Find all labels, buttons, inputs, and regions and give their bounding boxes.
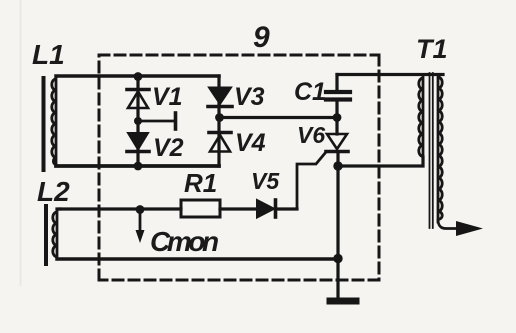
junction node: bridge top left [134, 72, 143, 81]
Cmon (Стоп) arrow [136, 211, 145, 243]
wire: branch to T1 primary bottom [338, 157, 423, 166]
svg-text:V4: V4 [235, 129, 266, 157]
stub terminal between V1 and V2 [138, 113, 176, 129]
wire: right bridge branch [217, 76, 220, 166]
dashed enclosure box Э [99, 55, 379, 280]
diode V2 [127, 133, 149, 152]
svg-text:V5: V5 [251, 168, 280, 194]
diode V1 [127, 90, 149, 109]
wire: top rail from C1 to T1 [337, 73, 443, 76]
svg-text:T1: T1 [416, 34, 448, 64]
svg-text:9: 9 [253, 21, 270, 54]
wire: V6 cathode down to ground node [336, 153, 339, 298]
junction node: Cmon tap [136, 205, 145, 214]
faint page crease [20, 0, 22, 285]
svg-text:L2: L2 [37, 176, 70, 207]
junction node: C1/V6 branch top [333, 113, 342, 122]
wire: L1 bottom / bridge bottom rail [56, 164, 219, 168]
svg-text:V2: V2 [153, 134, 184, 162]
wire: bridge mid to C1/V6 branch [219, 116, 337, 119]
diode V5 [257, 200, 297, 218]
wire: L2 bottom rail [57, 257, 338, 261]
transformer T1 secondary winding [438, 75, 442, 222]
resistor R1 [60, 200, 257, 217]
svg-text:V1: V1 [152, 83, 183, 111]
inductor L1 [44, 77, 57, 170]
wire: left bridge branch [136, 76, 139, 166]
svg-text:V6: V6 [297, 122, 325, 148]
ground [330, 298, 356, 305]
wire: L1 top to bridge top rail [56, 74, 219, 78]
output arrow from T1 secondary [438, 220, 483, 236]
diode V4 [209, 133, 231, 152]
junction node: V6 cathode / T1 wire [333, 161, 342, 170]
junction node: bridge bottom left [134, 162, 143, 171]
svg-text:Cmon: Cmon [150, 226, 218, 257]
wire: L2 top to R1 [57, 207, 60, 210]
svg-text:R1: R1 [184, 168, 217, 198]
svg-text:L1: L1 [32, 39, 65, 70]
svg-text:C1: C1 [294, 78, 326, 106]
junction node: bottom rail / ground [333, 254, 342, 263]
inductor L2 [46, 206, 57, 264]
capacitor C1 [326, 75, 350, 118]
junction node: V1-V2 mid [134, 117, 142, 125]
svg-text:V3: V3 [234, 83, 265, 111]
diode V3 [208, 88, 232, 107]
thyristor V6 [297, 118, 348, 210]
transformer T1 primary winding [419, 75, 423, 165]
transformer T1 core [430, 73, 433, 228]
junction node: V3-V4 mid [215, 113, 224, 122]
